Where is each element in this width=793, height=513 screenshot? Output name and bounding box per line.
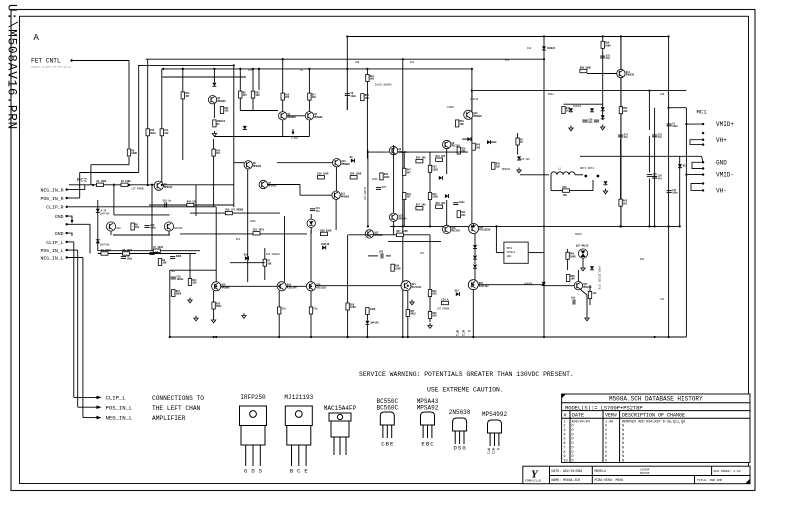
ground hook at GND pin 4	[67, 216, 72, 219]
svg-text:MJE15030: MJE15030	[479, 229, 491, 232]
svg-text:CLIP_L: CLIP_L	[46, 240, 63, 246]
wire VMID+ feed	[686, 123, 703, 125]
diode D18b	[455, 289, 460, 296]
resistor R17	[308, 93, 317, 100]
svg-text:REMOVED ADD R64,R67 D-38,Q11,Q: REMOVED ADD R64,R67 D-38,Q11,Q8	[622, 420, 685, 424]
wire bias v4	[429, 200, 431, 227]
svg-text:47R: 47R	[248, 69, 253, 72]
wire bias v2	[429, 152, 431, 165]
svg-text:1M2: 1M2	[505, 59, 510, 62]
svg-text:BC550C: BC550C	[175, 227, 184, 230]
resistor R28	[346, 303, 356, 310]
wire POS_IN_L drop	[77, 250, 79, 407]
svg-text:10n: 10n	[588, 121, 593, 124]
svg-text:R49: R49	[563, 186, 568, 189]
resistor R33	[428, 165, 438, 172]
svg-text:10: 10	[564, 459, 568, 463]
wire drop x=161.8	[161, 69, 163, 185]
wire v x=152b	[151, 185, 153, 251]
wire gnd rail right	[598, 155, 702, 157]
svg-text:1K8: 1K8	[164, 132, 169, 135]
capacitor C75	[376, 186, 387, 190]
resistor R24b	[366, 308, 376, 315]
svg-text:10K0: 10K0	[250, 220, 256, 223]
svg-text:10K: 10K	[162, 262, 167, 265]
title block frame	[523, 466, 750, 484]
wire r17 to q5	[308, 100, 310, 111]
wire q1 row	[149, 204, 234, 206]
diode D21 zener	[517, 156, 521, 160]
wire drop x=668.6	[668, 37, 670, 338]
wire base riser	[113, 185, 115, 215]
wire staircase h1	[91, 164, 129, 166]
svg-text:27u: 27u	[313, 307, 318, 310]
svg-text:CLIP_R: CLIP_R	[46, 205, 63, 211]
svg-text:2K2: 2K2	[312, 96, 317, 99]
svg-text:PS2T8P: PS2T8P	[640, 472, 650, 475]
svg-text:R16 100R: R16 100R	[317, 173, 329, 176]
svg-text:4K7: 4K7	[243, 94, 248, 97]
wire VMID- feed	[686, 174, 703, 176]
resistor R50	[601, 41, 611, 48]
diode D7	[243, 126, 247, 130]
svg-text:22K0: 22K0	[432, 168, 438, 171]
svg-text:BC560C: BC560C	[376, 404, 398, 411]
capacitor C23	[652, 133, 663, 139]
wire v x=213.6 ext	[213, 165, 215, 207]
connector MC2 pin at y=257.5	[66, 256, 68, 258]
package BC550C/BC560C (TO-92)	[376, 398, 398, 448]
wire d chain2	[474, 260, 476, 265]
junction dots rails	[182, 68, 184, 70]
svg-text:MJ21194: MJ21194	[412, 286, 422, 289]
transistor Q7	[259, 180, 277, 188]
svg-text:R61: R61	[410, 61, 415, 64]
wire POS_IN_L stub	[67, 249, 78, 251]
transistor Q5	[305, 112, 323, 120]
capacitor C2b	[170, 255, 182, 259]
svg-text:100u: 100u	[150, 227, 156, 230]
resistor R55	[566, 252, 576, 259]
svg-text:1K0: 1K0	[135, 226, 140, 229]
wire d17 down	[366, 325, 368, 338]
ground q24	[585, 316, 589, 321]
wire r49 loop l2	[551, 190, 563, 192]
resistor R39	[391, 264, 401, 271]
wire r19 down	[366, 82, 368, 149]
wire gnd rail ext	[580, 155, 598, 157]
wire VH+ hook	[690, 140, 703, 145]
wire q3a tail	[110, 231, 112, 235]
transistor Q6	[244, 161, 262, 169]
svg-text:220R: 220R	[395, 267, 401, 270]
wire GND hook	[692, 162, 703, 168]
resistor R42	[436, 202, 446, 208]
svg-text:R5 1K00: R5 1K00	[123, 249, 133, 252]
svg-text:100R: 100R	[370, 308, 376, 311]
svg-text:10R: 10R	[563, 194, 568, 197]
wire q4 em drop	[282, 120, 284, 136]
svg-text:1N4148: 1N4148	[321, 243, 330, 246]
wire bottom rail	[170, 336, 687, 338]
ground mid2	[242, 313, 246, 318]
package IRFP250 (TO-247)	[240, 394, 267, 475]
wire q21 em	[407, 291, 409, 310]
svg-text:MPSA92: MPSA92	[417, 404, 439, 411]
title block row divider	[550, 475, 751, 477]
wire CLIP_L to arrow	[74, 396, 97, 398]
package MAC15A4FP (TO-220)	[324, 330, 470, 455]
svg-text:CLIP_L: CLIP_L	[106, 395, 126, 402]
wire q20 l3 down	[310, 314, 312, 337]
svg-text:USE EXTREME CAUTION.: USE EXTREME CAUTION.	[427, 387, 504, 394]
svg-text:D14: D14	[527, 47, 532, 50]
wire Q2 emitter	[213, 104, 215, 118]
wire VH- hook	[691, 184, 703, 191]
wire drop x=347.3	[346, 37, 348, 111]
resistor R52	[619, 107, 628, 114]
wire v x=367.4 ext	[366, 148, 368, 159]
inductor L3	[309, 307, 318, 314]
resistor R4	[121, 180, 131, 186]
resistor R31	[457, 211, 466, 218]
diode D10	[439, 176, 443, 180]
wire filt	[520, 174, 549, 176]
resistor R41	[436, 155, 446, 161]
wire drop x=402.8	[402, 59, 404, 337]
svg-text:MJ21193: MJ21193	[479, 285, 489, 288]
svg-text:MPSA64: MPSA64	[502, 168, 511, 171]
svg-text:NAME: M508A.SCH: NAME: M508A.SCH	[552, 478, 581, 482]
Yorkville logo	[525, 469, 541, 483]
diode D27	[473, 265, 477, 269]
wire drop x=138.7	[138, 65, 140, 172]
svg-text:X00/04/04: X00/04/04	[572, 419, 590, 424]
svg-text:1K0: 1K0	[460, 123, 465, 126]
svg-text:1K0: 1K0	[255, 94, 260, 97]
wire v x=213.6 b	[213, 156, 215, 165]
wire vas h1	[277, 162, 333, 164]
svg-text:VH+: VH+	[716, 137, 727, 144]
capacitor C16	[171, 275, 184, 281]
ground mid1	[194, 316, 198, 321]
svg-text:CONNECTS TO GATE S OF FETS AND: CONNECTS TO GATE S OF FETS AND ALL	[31, 66, 73, 69]
component box MOV1	[504, 242, 528, 263]
wire POS_IN_R stub	[67, 197, 80, 199]
svg-text:25V: 25V	[379, 251, 384, 254]
wire bias v1	[403, 152, 405, 168]
wire NEG_IN_L drop	[82, 258, 84, 418]
wire mid-right rail	[472, 90, 687, 92]
wire box stub l	[496, 252, 504, 254]
wire c cap row b	[386, 255, 391, 257]
wire x620 mid	[620, 139, 622, 199]
svg-text:Q17 MAC15: Q17 MAC15	[576, 245, 589, 248]
wire drop x=282.7	[282, 59, 284, 93]
svg-text:MC2: MC2	[77, 177, 87, 184]
wire upper rail B	[138, 64, 234, 66]
svg-text:AMPLIFIER: AMPLIFIER	[152, 415, 186, 422]
wire c6 down	[252, 98, 254, 110]
capacitor C8	[345, 92, 357, 98]
wire q20 em	[310, 291, 312, 307]
wire q6 row	[234, 162, 244, 164]
table model divider	[562, 410, 750, 412]
wire v x=679.7	[679, 156, 681, 226]
connector MC2 pin at y=189.6	[66, 188, 68, 190]
svg-text:1K00: 1K00	[384, 176, 390, 179]
wire c5 down	[239, 98, 241, 110]
svg-text:2K2: 2K2	[623, 110, 628, 113]
svg-text:2K0: 2K0	[476, 146, 481, 149]
svg-text:R26 100R: R26 100R	[350, 173, 362, 176]
wire lower row	[98, 250, 200, 252]
svg-text:D1+D2 1N4004: D1+D2 1N4004	[375, 84, 392, 87]
wire FET drop lower	[128, 157, 130, 165]
resistor R5	[123, 249, 133, 255]
svg-text:VMID+: VMID+	[716, 121, 734, 128]
wire q22 d24 row	[478, 284, 543, 286]
connector MC2 pin at y=206.8	[66, 206, 68, 208]
wire d12 row	[462, 138, 467, 140]
svg-text:MODEL#: MODEL#	[595, 469, 607, 473]
diode D18	[590, 108, 594, 112]
wire led column	[310, 214, 312, 219]
resistor R60	[588, 292, 597, 299]
connector MC1 pin dot y=133.1	[702, 132, 704, 134]
svg-text:10K: 10K	[571, 278, 576, 281]
wire drop x=686.4	[685, 108, 687, 337]
svg-text:47n: 47n	[658, 136, 663, 139]
wire q24 em	[581, 290, 588, 296]
svg-text:MPSA92: MPSA92	[253, 165, 262, 168]
svg-text:MJ21193: MJ21193	[316, 287, 326, 290]
wire upper rail A	[146, 58, 544, 60]
wire staircase v1	[90, 165, 92, 185]
svg-text:MAC15A4FP: MAC15A4FP	[324, 405, 357, 412]
ground q18	[211, 318, 215, 323]
wire top rail	[348, 36, 669, 38]
transistor Q16	[443, 225, 461, 233]
wire q4 q5 link	[287, 115, 305, 117]
svg-text:MOV1: MOV1	[507, 247, 513, 250]
wire q18 q19 row	[221, 285, 277, 287]
svg-text:VH-: VH-	[716, 188, 727, 195]
svg-text:IRFP250: IRFP250	[240, 394, 266, 401]
ground hook at GND pin 6	[67, 233, 72, 236]
svg-text:R37 1K0: R37 1K0	[416, 204, 426, 207]
transistor Q8	[443, 140, 461, 148]
wire NEG_IN_R stub	[67, 189, 85, 191]
capacitor C17	[379, 251, 384, 259]
wire q15 stub	[471, 91, 473, 111]
wire pin5 stub	[67, 223, 74, 225]
wire q14 em	[620, 78, 622, 107]
resistor R47	[403, 168, 412, 175]
wire left row y270	[170, 269, 216, 271]
wire v x=590	[589, 285, 591, 292]
svg-text:MAC15: MAC15	[575, 233, 583, 236]
inductor L2	[278, 307, 287, 314]
svg-text:500: 500	[432, 293, 437, 296]
capacitor C28	[582, 118, 593, 124]
svg-text:R27 220R: R27 220R	[397, 230, 409, 233]
ground r58	[428, 323, 432, 328]
package MPSA43/MPSA92 (TO-92)	[417, 398, 439, 448]
wire v x=344.8 up	[347, 235, 349, 303]
wire drop x=240.3	[239, 69, 241, 91]
table title divider	[562, 402, 750, 404]
wire v x=590 b	[589, 299, 591, 306]
resistor R24	[442, 298, 450, 304]
wire left row y213	[190, 212, 280, 214]
svg-text:AMPLIFIER 2TB: AMPLIFIER 2TB	[598, 266, 601, 290]
table M508A.SCH DATABASE HISTORY frame	[562, 394, 750, 463]
table column line 3	[619, 411, 621, 463]
arrowhead POS_IN_L	[97, 405, 102, 409]
wire left row y262	[230, 262, 265, 264]
wire d chain	[474, 249, 476, 255]
wire v x=496.4	[495, 226, 497, 252]
svg-text:2K4: 2K4	[461, 214, 466, 217]
wire r49 loop r2	[592, 180, 594, 191]
wire l1 out	[575, 174, 583, 176]
inductor L1	[551, 168, 575, 175]
svg-text:LOT PRONE: LOT PRONE	[132, 188, 145, 191]
svg-text:0R22: 0R22	[216, 305, 222, 308]
wire pin5 run	[74, 223, 90, 225]
wire drop x=233.8	[233, 65, 235, 207]
svg-text:R56 200K: R56 200K	[580, 66, 592, 69]
wire drop x=253	[252, 69, 254, 91]
resistor R30	[457, 147, 466, 154]
wire d17 mid	[366, 315, 368, 321]
wire d13 row	[491, 141, 497, 143]
svg-text:MT1: MT1	[454, 330, 458, 336]
arrowhead NEG_IN_L	[97, 416, 102, 420]
svg-text:MJ21194: MJ21194	[287, 287, 297, 290]
junction dots	[402, 58, 404, 60]
svg-text:25V: 25V	[420, 252, 425, 255]
connector MC1 pin dot y=144.6	[702, 143, 704, 145]
resistor R15	[281, 93, 290, 100]
diode Dz b	[601, 115, 605, 119]
wire v x=578.4	[577, 270, 579, 282]
svg-text:14k: 14k	[592, 292, 597, 295]
wire bias h2	[404, 225, 430, 227]
connector MC2 pin at y=241.9	[66, 241, 68, 243]
capacitor C15	[163, 200, 172, 208]
transistor Q20	[306, 282, 326, 291]
wire drop x=182.8	[182, 69, 184, 160]
triac Q17	[576, 245, 589, 259]
svg-text:2N5638: 2N5638	[449, 409, 471, 416]
resistor R40	[428, 290, 437, 297]
connector MC2 pin at y=224.3	[66, 223, 68, 225]
connector MC1 pin dot y=190.4	[702, 189, 704, 191]
ground cluster	[569, 126, 573, 131]
transistor Q4	[279, 112, 297, 120]
diode D9	[350, 156, 355, 163]
transistor Q10	[333, 159, 351, 167]
diode D15 zener	[569, 108, 573, 112]
transistor Q2	[208, 96, 226, 104]
wire q10 q11 column	[335, 167, 337, 191]
svg-text:POS_IN_R: POS_IN_R	[40, 196, 63, 202]
svg-text:MJ121193: MJ121193	[284, 394, 313, 401]
wire v x=213.6 a	[213, 139, 215, 149]
svg-text:R42 2K4: R42 2K4	[436, 202, 446, 205]
wire drop x=169.8	[169, 270, 171, 337]
capacitor C1	[121, 255, 133, 261]
wire r28 down	[347, 310, 349, 337]
svg-text:PCB#;VER#: M508: PCB#;VER#: M508	[595, 478, 624, 482]
wire v x=430 mid	[429, 172, 431, 192]
capacitor C14	[310, 207, 321, 213]
svg-text:D16 1N4004: D16 1N4004	[266, 253, 280, 256]
svg-text:G: G	[495, 448, 499, 450]
wire v x=196	[195, 185, 197, 216]
ground d21	[517, 168, 521, 173]
resistor R23	[188, 279, 197, 286]
wire bias h1 ext b	[398, 151, 404, 153]
diode D23	[604, 181, 608, 185]
table column line 1	[569, 411, 571, 463]
svg-text:MPSW56: MPSW56	[314, 116, 323, 119]
wire v x=649.4 b	[648, 136, 650, 173]
table header divider	[562, 417, 750, 419]
svg-text:100n: 100n	[672, 192, 678, 195]
wire v x=284.5 up	[284, 216, 286, 234]
title block col 1	[591, 466, 593, 484]
wire drop x=471.9	[471, 69, 473, 227]
svg-text:MPSW06: MPSW06	[288, 116, 297, 119]
svg-text:1N4148: 1N4148	[370, 321, 379, 324]
svg-text:CONNECTIONS TO: CONNECTIONS TO	[152, 395, 204, 402]
ground arrow pin4	[71, 218, 74, 224]
resistor R8	[158, 259, 167, 266]
resistor R43	[619, 199, 628, 206]
resistor R46	[562, 107, 571, 114]
svg-text:2K2: 2K2	[285, 96, 290, 99]
svg-text:4K7: 4K7	[407, 196, 412, 199]
resistor R51b	[220, 107, 229, 114]
resistor R57	[406, 310, 416, 317]
svg-text:G: G	[466, 330, 470, 332]
wire led down	[310, 228, 312, 234]
wire v x=393.6 ext	[393, 222, 395, 235]
svg-text:D16: D16	[244, 253, 249, 256]
wire drop x=393.6	[393, 145, 395, 213]
transistor Q3B	[164, 222, 173, 231]
svg-text:47n: 47n	[658, 178, 663, 181]
capacitor C2	[149, 251, 158, 255]
svg-text:M508A.SCH DATABASE HISTORY: M508A.SCH DATABASE HISTORY	[609, 396, 703, 403]
svg-text:GND: GND	[55, 231, 64, 237]
diode D25	[473, 245, 477, 249]
svg-text:R34 1K0: R34 1K0	[416, 157, 426, 160]
wire drop x=311b	[310, 230, 312, 282]
wire vas h2	[268, 184, 301, 186]
svg-text:R62: R62	[640, 258, 645, 261]
svg-text:C24_A: C24_A	[442, 298, 450, 301]
svg-text:50K6: 50K6	[176, 255, 182, 258]
resistor R9	[127, 149, 137, 156]
transistor Q24	[574, 282, 592, 290]
svg-text:R50a: R50a	[548, 93, 554, 96]
svg-text:1N4746A: 1N4746A	[100, 243, 110, 246]
wire d24 q24 row	[544, 285, 575, 287]
